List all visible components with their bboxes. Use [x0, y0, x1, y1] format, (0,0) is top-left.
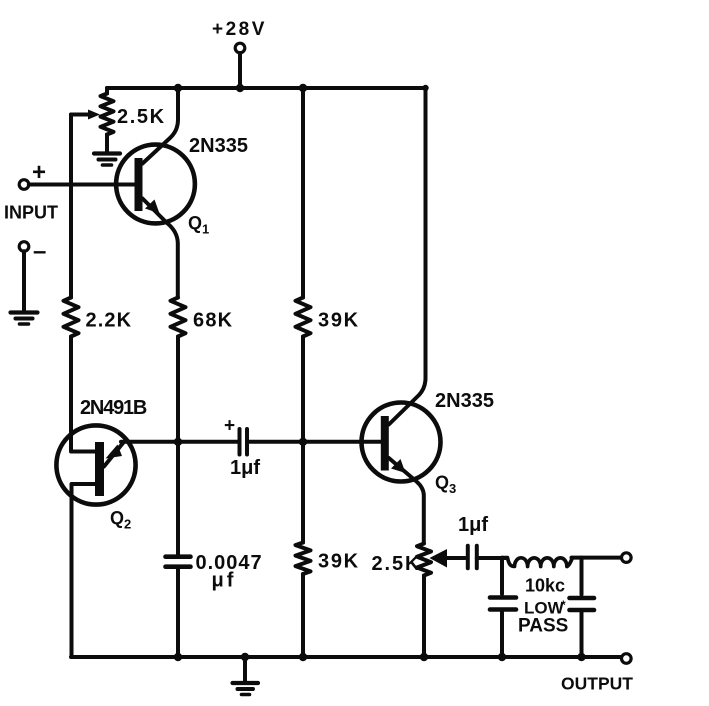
transistor Q2 base bar — [95, 442, 104, 496]
svg-text:68K: 68K — [193, 310, 233, 332]
ground input — [11, 310, 38, 314]
transistor Q3 base bar — [381, 416, 389, 471]
wire shunt cap right drop — [580, 558, 584, 595]
wire shunt cap left drop — [500, 558, 504, 594]
transistor Q1 emitter lead — [143, 199, 178, 298]
svg-text:+: + — [224, 416, 235, 437]
wire C3 to filter — [477, 556, 506, 560]
wire rail ground stub — [243, 657, 247, 681]
wire input- to ground — [22, 251, 26, 310]
wire 2.2K bottom to Q2 B2 — [71, 337, 96, 452]
svg-text:39K: 39K — [318, 551, 360, 573]
wire bottom ground rail — [71, 655, 621, 659]
node top rail / Q1 collector junction — [174, 84, 182, 92]
wire pot2 wiper to C3 — [445, 556, 465, 560]
svg-text:2.2K: 2.2K — [86, 310, 133, 332]
node rail / C4 junction — [498, 653, 506, 661]
svg-text:Q2: Q2 — [110, 508, 131, 532]
node rail / 68K-C2 junction — [174, 653, 182, 661]
resistor 39K lower body — [296, 543, 311, 575]
svg-text:2N335: 2N335 — [189, 135, 248, 157]
transistor Q1 emitter arrowhead — [145, 200, 160, 214]
OUTPUT bottom terminal — [622, 654, 632, 664]
capacitor C1 1uf left plate — [238, 429, 242, 455]
node rail / 39K junction — [299, 653, 307, 661]
pot 2.5K wiper arrowhead — [88, 110, 100, 120]
node mid wire / 39K line junction — [299, 438, 307, 446]
svg-text:Q1: Q1 — [188, 213, 209, 237]
capacitor C2 0.0047uf bottom plate — [166, 564, 191, 569]
wire pot 2.5K top drop — [105, 88, 109, 94]
capacitor C3 1uf left plate — [466, 546, 470, 569]
wire C2 bottom to rail — [176, 569, 180, 657]
transistor Q1 collector lead — [143, 88, 179, 164]
svg-text:1μf: 1μf — [230, 457, 260, 479]
inductor L1 10kc low pass coil — [503, 558, 573, 567]
potentiometer R1 2.5K body — [101, 94, 114, 135]
ground bottom rail — [233, 681, 259, 685]
wire top rail +28V bus — [107, 86, 426, 90]
wire 68K bottom through junction to C2 — [176, 337, 180, 555]
wire 39K line top — [301, 88, 305, 298]
resistor 68K body — [171, 298, 186, 337]
svg-text:10kc: 10kc — [525, 575, 565, 595]
potentiometer R2 2.5K body — [417, 544, 431, 576]
INPUT - terminal — [19, 242, 29, 252]
wire C4 bottom to rail — [500, 612, 504, 657]
transistor Q1 2N335 circle — [116, 145, 195, 224]
transistor Q3 emitter arrowhead — [391, 459, 406, 473]
svg-text:2N335: 2N335 — [435, 390, 494, 412]
svg-text:–: – — [33, 238, 46, 265]
capacitor C1 1uf right plate — [245, 429, 249, 455]
wire +28V stub — [238, 53, 242, 88]
wire C5 bottom to rail — [580, 612, 584, 657]
svg-text:2.5K: 2.5K — [372, 553, 422, 575]
capacitor C4 bottom plate — [490, 607, 516, 612]
ground under pot 2.5K — [94, 151, 120, 155]
wire 39K lower bottom — [301, 574, 305, 657]
svg-text:+: + — [32, 159, 46, 186]
transistor Q2 emitter arrowhead — [106, 445, 123, 459]
wire wiper rail down left — [69, 115, 73, 298]
wire pot bottom stub to ground — [105, 135, 109, 152]
+28V supply terminal — [235, 43, 245, 53]
wire filter top right to output — [572, 556, 622, 560]
svg-text:39K: 39K — [318, 310, 360, 332]
svg-text:PASS: PASS — [518, 616, 568, 637]
wire pot2 bottom to rail — [422, 576, 426, 658]
transistor Q2 emitter line — [104, 442, 124, 467]
wire C1 to Q3 base — [247, 440, 381, 444]
resistor 2.2K body — [64, 298, 79, 337]
pot2 wiper arrowhead — [430, 549, 448, 568]
transistor Q2 2N491B circle — [56, 425, 135, 504]
capacitor C3 1uf right plate — [475, 546, 479, 569]
svg-text:+28V: +28V — [212, 19, 267, 40]
svg-text:2.5K: 2.5K — [117, 106, 166, 128]
OUTPUT top terminal — [622, 553, 632, 563]
node top rail / 39K junction — [299, 84, 307, 92]
node rail / pot2 junction — [420, 653, 428, 661]
capacitor C5 top plate — [570, 596, 595, 601]
node mid wire / 68K line junction — [174, 438, 182, 446]
svg-text:1μf: 1μf — [458, 514, 488, 536]
svg-text:OUTPUT: OUTPUT — [561, 673, 633, 693]
svg-text:Q3: Q3 — [435, 473, 456, 497]
svg-text:2N491B: 2N491B — [80, 397, 147, 419]
transistor Q3 emitter lead — [389, 458, 424, 544]
node rail / C5 junction — [577, 653, 585, 661]
wire pot 2.5K wiper — [71, 113, 89, 117]
capacitor C2 0.0047uf top plate — [166, 554, 191, 559]
svg-text:μf: μf — [212, 570, 237, 592]
resistor 39K upper body — [296, 298, 311, 337]
wire Q2 to C1 — [121, 440, 238, 444]
transistor Q3 2N335 circle — [362, 403, 441, 482]
transistor Q3 collector lead — [389, 88, 426, 425]
capacitor C5 bottom plate — [570, 608, 595, 613]
svg-text:*: * — [561, 598, 566, 612]
capacitor C4 top plate — [490, 595, 516, 600]
wire input+ to Q1 base — [29, 183, 135, 187]
wire Q2 B1 lead down — [72, 484, 96, 657]
node top rail right corner — [422, 85, 428, 91]
transistor Q1 base bar — [135, 158, 143, 211]
wire 39K mid — [301, 337, 305, 543]
node top rail / +28V junction — [236, 84, 244, 92]
svg-text:INPUT: INPUT — [4, 203, 58, 223]
node rail / ground junction — [241, 653, 249, 661]
INPUT + terminal — [19, 180, 29, 190]
